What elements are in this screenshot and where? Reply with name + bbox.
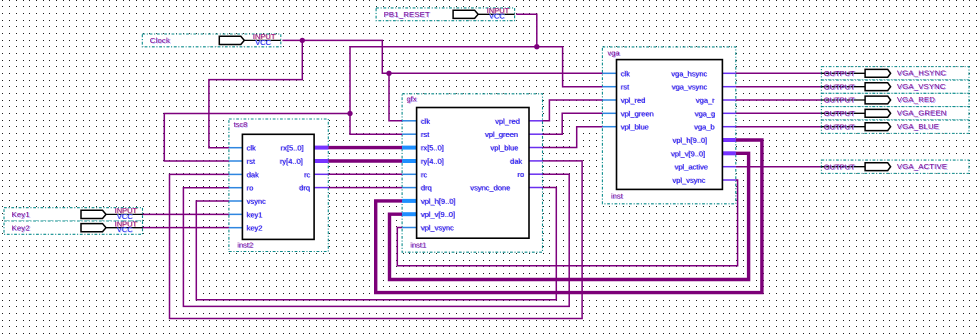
wire: clk net from Clock pin to tsc8.clk gfx.clk vga.clk <box>282 40 602 73</box>
wire: vpl_blue gfx to vga <box>543 127 603 148</box>
vga selection box <box>602 47 735 204</box>
svg-text:vpl_blue: vpl_blue <box>491 144 519 153</box>
wire: drq net tsc8.drq to gfx.drq <box>328 187 402 189</box>
svg-text:ry[4..0]: ry[4..0] <box>280 157 303 166</box>
svg-text:VCC: VCC <box>117 225 133 234</box>
wire: vga_r to output <box>736 99 822 101</box>
wire: rst branch to gfx.rst <box>350 47 537 135</box>
svg-text:ro: ro <box>247 184 254 193</box>
svg-text:vpl_h[9..0]: vpl_h[9..0] <box>673 136 708 145</box>
wire: clk branch to gfx.clk <box>389 73 402 121</box>
svg-text:VCC: VCC <box>489 12 505 21</box>
gfx selection box <box>402 94 542 252</box>
output pin VGA_BLUE <box>821 120 969 133</box>
svg-text:OUTPUT: OUTPUT <box>824 122 855 131</box>
svg-text:OUTPUT: OUTPUT <box>824 162 855 171</box>
svg-text:dak: dak <box>510 157 522 166</box>
node: rst junction C <box>534 44 539 49</box>
svg-text:VGA_HSYNC: VGA_HSYNC <box>897 69 946 78</box>
svg-text:drq: drq <box>421 184 432 193</box>
wire: Key1 to tsc8.key1 <box>143 213 229 215</box>
bus: rx[5..0] tsc8 to gfx <box>328 146 402 149</box>
svg-text:vsync_done: vsync_done <box>470 184 510 193</box>
svg-text:VGA_RED: VGA_RED <box>897 95 935 104</box>
svg-text:rc: rc <box>304 170 310 179</box>
svg-text:vga_vsync: vga_vsync <box>672 83 708 92</box>
input pin Clock <box>142 32 280 47</box>
svg-text:ry[4..0]: ry[4..0] <box>421 157 444 166</box>
output pin VGA_VSYNC <box>821 80 969 93</box>
wire: vga_b to output <box>736 126 822 128</box>
wire: rst net from PB1_RESET pin <box>516 14 537 46</box>
svg-text:VGA_ACTIVE: VGA_ACTIVE <box>897 162 947 171</box>
output pin VGA_HSYNC <box>821 67 969 80</box>
svg-text:clk: clk <box>247 144 256 153</box>
svg-text:OUTPUT: OUTPUT <box>824 96 855 105</box>
input pin Key1 <box>4 206 143 221</box>
svg-text:rx[5..0]: rx[5..0] <box>281 144 304 153</box>
node: clk junction A <box>300 38 305 43</box>
tsc8 selection box <box>229 119 328 252</box>
svg-text:rst: rst <box>247 157 256 166</box>
svg-text:rc: rc <box>421 170 427 179</box>
wire: vpl_red gfx to vga <box>543 100 603 121</box>
output pin VGA_RED <box>821 93 969 106</box>
svg-text:vpl_blue: vpl_blue <box>621 123 649 132</box>
svg-text:vga: vga <box>608 49 621 58</box>
wire: vpl_active to VGA_ACTIVE output <box>736 166 822 168</box>
svg-text:vpl_v[9..0]: vpl_v[9..0] <box>421 210 455 219</box>
svg-text:OUTPUT: OUTPUT <box>824 109 855 118</box>
svg-text:inst: inst <box>611 192 624 201</box>
output pin VGA_GREEN <box>821 107 969 120</box>
svg-text:inst2: inst2 <box>237 241 253 250</box>
svg-text:tsc8: tsc8 <box>234 120 248 129</box>
svg-text:vga_g: vga_g <box>695 109 715 118</box>
svg-text:vpl_green: vpl_green <box>485 130 518 139</box>
svg-text:Clock: Clock <box>150 36 170 45</box>
svg-text:rst: rst <box>621 83 630 92</box>
svg-text:inst1: inst1 <box>410 241 426 250</box>
svg-text:PB1_RESET: PB1_RESET <box>384 10 430 19</box>
wire: vga_hsync to output <box>736 72 822 74</box>
svg-text:ro: ro <box>518 170 525 179</box>
svg-text:vga_b: vga_b <box>694 123 714 132</box>
svg-text:vpl_h[9..0]: vpl_h[9..0] <box>421 197 456 206</box>
wire: vpl_green gfx to vga <box>543 113 603 134</box>
wire: clk branch to tsc8.clk <box>209 40 302 147</box>
svg-text:clk: clk <box>621 69 630 78</box>
svg-text:gfx: gfx <box>407 95 417 104</box>
svg-text:clk: clk <box>421 117 430 126</box>
wire: Key2 to tsc8.key2 <box>143 227 229 229</box>
svg-text:vpl_v[9..0]: vpl_v[9..0] <box>671 149 705 158</box>
svg-text:Key1: Key1 <box>12 210 30 219</box>
wire: vsync net gfx.vsync_done to tsc8.vsync <box>196 188 556 300</box>
wire: rc net tsc8.rc to gfx.rc <box>328 173 402 175</box>
wire: vga_vsync to output <box>736 86 822 88</box>
block symbol gfx inst1 <box>402 95 542 251</box>
wire: ro net gfx.ro to tsc8.ro <box>183 174 569 306</box>
svg-text:vga_hsync: vga_hsync <box>672 69 708 78</box>
svg-text:drq: drq <box>299 184 310 193</box>
svg-text:Key2: Key2 <box>12 223 30 232</box>
svg-text:vpl_green: vpl_green <box>621 109 654 118</box>
svg-text:OUTPUT: OUTPUT <box>824 69 855 78</box>
svg-text:vga_r: vga_r <box>696 96 715 105</box>
node: clk junction B <box>386 71 391 76</box>
output pin VGA_ACTIVE <box>821 160 969 173</box>
svg-text:vpl_vsync: vpl_vsync <box>673 176 706 185</box>
svg-text:vpl_red: vpl_red <box>495 117 520 126</box>
svg-text:VGA_GREEN: VGA_GREEN <box>897 109 947 118</box>
svg-text:vpl_red: vpl_red <box>621 96 646 105</box>
input pin PB1_RESET <box>376 6 514 21</box>
svg-text:rx[5..0]: rx[5..0] <box>421 144 444 153</box>
block symbol tsc8 inst2 <box>229 120 328 250</box>
svg-text:VGA_VSYNC: VGA_VSYNC <box>897 82 946 91</box>
svg-text:vpl_active: vpl_active <box>675 163 708 172</box>
svg-text:dak: dak <box>247 170 259 179</box>
svg-text:vsync: vsync <box>247 197 266 206</box>
svg-text:key2: key2 <box>247 224 263 233</box>
bus: ry[4..0] tsc8 to gfx <box>328 159 402 162</box>
wire: rst branch to tsc8.rst <box>164 114 350 162</box>
wire: vga_g to output <box>736 112 822 114</box>
svg-text:OUTPUT: OUTPUT <box>824 82 855 91</box>
svg-text:vpl_vsync: vpl_vsync <box>421 224 454 233</box>
svg-text:rst: rst <box>421 130 430 139</box>
svg-text:key1: key1 <box>247 210 263 219</box>
wire: dak net gfx.dak to tsc8.dak <box>170 161 583 319</box>
wire: rst branch to vga.rst <box>537 47 603 87</box>
svg-text:VCC: VCC <box>255 38 271 47</box>
input pin Key2 <box>4 219 143 234</box>
block symbol vga inst <box>602 49 735 202</box>
bus: vpl_h[9..0] vga to gfx <box>376 140 762 293</box>
svg-text:VGA_BLUE: VGA_BLUE <box>897 122 939 131</box>
wire: vpl_vsync vga to gfx <box>397 180 737 266</box>
bus: vpl_v[9..0] vga to gfx <box>390 153 749 279</box>
node: rst junction D <box>347 111 352 116</box>
